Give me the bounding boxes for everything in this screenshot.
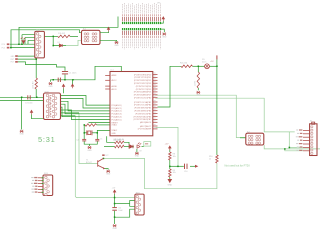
wire vcc stub xtal <box>72 80 74 85</box>
capacitor C3 <box>28 95 30 99</box>
wire led rail 1 <box>107 136 115 142</box>
svg-text:5:31: 5:31 <box>38 135 56 144</box>
wire SV1 pin5 h <box>28 39 35 41</box>
wire r5 gnd stub2 <box>197 88 199 90</box>
wire cap C10 rail <box>170 165 184 167</box>
wire cap rail gnd <box>51 80 53 82</box>
resistor R8 <box>169 152 172 160</box>
wire big loop net <box>103 158 216 188</box>
svg-text:AREF: AREF <box>112 74 118 77</box>
wire ic bus 7 <box>89 122 111 124</box>
wire xtal1 b <box>83 125 86 133</box>
wire top bus B <box>11 30 82 48</box>
svg-text:XTAL2: XTAL2 <box>112 129 118 132</box>
svg-text:RST: RST <box>11 59 14 61</box>
wire transistor base <box>79 113 98 164</box>
wire sv4 p1a <box>130 201 135 204</box>
junction A <box>18 44 20 46</box>
junction cap10 <box>177 166 179 168</box>
svg-text:AGND: AGND <box>112 85 118 88</box>
wire led rail 2b <box>124 146 133 148</box>
svg-text:(PCINT0/CLKO)PB0: (PCINT0/CLKO)PB0 <box>134 98 151 100</box>
junction xtal L <box>84 132 86 134</box>
supply arrow divider <box>169 146 172 150</box>
svg-text:(PCINT19/INT1)PD3: (PCINT19/INT1)PD3 <box>134 83 151 85</box>
junction pwr2 <box>114 203 116 205</box>
wire led to rail <box>209 65 217 67</box>
wire TXD net <box>10 47 35 49</box>
svg-text:C1 100n: C1 100n <box>69 73 77 75</box>
wire xtal c2 v <box>96 133 98 139</box>
svg-text:PC3(ADC3): PC3(ADC3) <box>112 113 122 116</box>
ground K1 <box>115 41 119 44</box>
wire led rail 2 <box>104 146 115 148</box>
svg-text:PC4: PC4 <box>2 44 5 46</box>
junction coll <box>103 158 105 160</box>
capacitor C1 <box>62 72 68 74</box>
svg-text:(PCINT16/RXD)PD0: (PCINT16/RXD)PD0 <box>134 74 151 76</box>
svg-text:10k: 10k <box>173 172 176 174</box>
svg-text:GND: GND <box>162 36 167 38</box>
diode D1 <box>21 37 25 44</box>
wire sv2 p3 <box>61 101 111 111</box>
wire X1 pin7 jog <box>285 149 303 151</box>
svg-text:PD7: PD7 <box>11 62 14 64</box>
junction pwr1 <box>114 197 116 199</box>
svg-text:100k R3: 100k R3 <box>33 81 35 89</box>
wire r5 gnd stub <box>197 66 199 72</box>
supply VCC SV2 <box>30 110 33 114</box>
net arrow cap out <box>195 165 198 168</box>
svg-text:C4: C4 <box>76 140 78 142</box>
svg-text:PC5: PC5 <box>2 47 5 49</box>
wire div mid <box>169 160 171 169</box>
wire sv2 p4 <box>61 104 111 114</box>
wire SV2 top vcc <box>63 89 65 94</box>
wire AVCC over top <box>73 66 121 80</box>
wire rxtx up <box>158 66 182 107</box>
svg-text:ADC6: ADC6 <box>112 88 117 91</box>
diode D2 <box>59 44 62 47</box>
wire SV1 diode branch <box>53 36 66 45</box>
junction pwr3 <box>114 216 116 218</box>
junction rail2 <box>36 97 38 99</box>
junction B <box>10 47 12 49</box>
wire X1 pin6 drop <box>289 132 303 148</box>
wire xtal2 <box>97 130 110 132</box>
wire xtal gnd stub <box>89 144 91 146</box>
resistor R6 <box>115 141 125 144</box>
svg-text:C5: C5 <box>100 139 102 141</box>
wire R3 top <box>35 59 37 78</box>
LED D3 <box>129 145 133 149</box>
svg-text:GND: GND <box>114 45 119 47</box>
svg-text:GND: GND <box>11 56 16 58</box>
svg-text:PC2(ADC2): PC2(ADC2) <box>112 110 122 113</box>
svg-text:GND: GND <box>135 156 140 158</box>
wire sv4 p2 <box>115 209 135 217</box>
svg-text:GND: GND <box>106 174 111 176</box>
svg-text:+5V: +5V <box>210 61 214 63</box>
wire rail y97 <box>0 96 44 98</box>
ground header <box>162 33 166 36</box>
wire sv2 p5 <box>61 107 111 117</box>
svg-text:GND: GND <box>167 184 172 186</box>
wire r4 to led <box>193 65 205 67</box>
wire sv2 p7 <box>61 112 80 114</box>
svg-text:GND: GND <box>48 86 53 88</box>
ground R5 <box>196 91 200 94</box>
junction C <box>21 44 23 46</box>
wire div bottom <box>169 177 171 179</box>
wire K1 vcc <box>100 32 109 33</box>
junction x1b <box>284 148 286 150</box>
supply VCC SV2 right <box>62 84 65 88</box>
relay K1 <box>82 30 101 44</box>
wire K1 gnd <box>100 40 117 42</box>
wire long lower net <box>264 145 320 149</box>
svg-text:AVCC: AVCC <box>112 79 118 82</box>
wire header gnd stub <box>160 29 164 32</box>
svg-text:(PCINT21/T1)PD5: (PCINT21/T1)PD5 <box>136 89 151 91</box>
svg-text:+5V: +5V <box>112 188 116 190</box>
junction rail5 <box>216 66 218 68</box>
resistor R10 <box>216 155 219 163</box>
svg-text:(PCINT17/TXD)PD1: (PCINT17/TXD)PD1 <box>134 77 151 79</box>
connector SV3 <box>43 175 53 196</box>
svg-text:(PCINT4/MISO)PB4: (PCINT4/MISO)PB4 <box>134 111 151 113</box>
svg-text:(PCINT23/AIN1)PD7: (PCINT23/AIN1)PD7 <box>134 94 151 97</box>
LED D4 <box>137 143 141 149</box>
ground entry <box>113 224 117 227</box>
junction xtal series <box>84 124 86 126</box>
ground left drop <box>20 130 24 133</box>
junction led <box>132 146 134 148</box>
svg-text:PC4(ADC4): PC4(ADC4) <box>112 116 122 119</box>
wire SV2 to bottom 5V rail <box>75 116 135 198</box>
wire xtal r <box>92 132 97 134</box>
wire cap C10 out <box>190 165 196 167</box>
junction x1a <box>289 147 291 149</box>
wire R2 to relay <box>70 35 78 37</box>
supply VCC K1 <box>107 27 110 31</box>
op-amp U1 microcontroller IC1 ATMEGA8 <box>110 72 153 136</box>
resistor R3 <box>35 78 38 89</box>
transistor T1 <box>98 158 105 168</box>
svg-text:(PCINT7/XTAL2)PB7: (PCINT7/XTAL2)PB7 <box>133 118 151 121</box>
connector X1 <box>310 124 317 156</box>
svg-text:1k R5: 1k R5 <box>195 80 197 86</box>
wire IC pin to opto <box>155 95 245 137</box>
wire xtal feed <box>18 62 65 71</box>
svg-text:(PCINT2/OC1B)PB2: (PCINT2/OC1B)PB2 <box>134 105 151 107</box>
wire xtal c1 v <box>83 133 85 139</box>
svg-text:GND: GND <box>112 133 117 135</box>
connector SV4 <box>135 194 144 215</box>
junction r5 <box>198 66 200 68</box>
resistor R4 <box>181 65 193 68</box>
supply arrow entry <box>113 190 116 194</box>
svg-text:(ADC6)ADC6: (ADC6)ADC6 <box>140 121 151 124</box>
resistor R9 <box>169 169 172 177</box>
net label 5V coll <box>102 154 104 156</box>
svg-text:5V: 5V <box>139 150 142 152</box>
supply VCC xtal rail <box>71 84 74 88</box>
junction caprail c <box>64 79 66 81</box>
ground leds <box>135 152 139 155</box>
wire cap C1 bottom stub <box>64 75 66 80</box>
wire opto gnd right <box>240 137 246 139</box>
wire led rail 1b <box>124 142 129 144</box>
junction R3 top <box>36 58 38 60</box>
resistor R11 xtal series <box>85 124 97 127</box>
connector SV2 <box>44 93 61 120</box>
wire sv2 p8 <box>61 115 76 117</box>
svg-text:(PCINT6/XTAL1)PB6: (PCINT6/XTAL1)PB6 <box>133 115 151 118</box>
resistor R7 <box>115 145 125 148</box>
wire IC pin to X1 pin6 <box>155 98 294 132</box>
svg-text:XTAL1: XTAL1 <box>112 124 118 127</box>
junction diode top <box>53 36 55 38</box>
LED D5 <box>205 64 210 69</box>
capacitor C6 10uF <box>112 208 117 211</box>
ground xtal rail <box>49 82 53 85</box>
svg-text:PC0(ADC0): PC0(ADC0) <box>112 104 122 107</box>
svg-text:GND: GND <box>87 150 92 152</box>
svg-text:Not used but for FTDI: Not used but for FTDI <box>225 164 250 168</box>
wire cap rail <box>52 79 73 81</box>
wire sv2 p1 <box>61 96 111 106</box>
wire led out <box>142 146 144 148</box>
svg-text:(PCINT5/SCK)PB5: (PCINT5/SCK)PB5 <box>135 113 151 115</box>
wire R3 bottom <box>35 89 37 97</box>
wire emitter gnd <box>105 169 109 170</box>
svg-text:GND: GND <box>112 228 117 230</box>
junction caprail b <box>72 79 74 81</box>
wire SV1 pin5 L <box>27 40 29 44</box>
svg-text:R4 240: R4 240 <box>180 63 188 65</box>
wire SV1 pin4 h <box>25 37 35 39</box>
junction div <box>169 166 171 168</box>
svg-text:(PCINT22/AIN0)PD6: (PCINT22/AIN0)PD6 <box>134 91 151 94</box>
wire top bus A <box>19 17 118 45</box>
capacitor C10 <box>185 164 188 169</box>
svg-text:BC547: BC547 <box>86 162 92 164</box>
svg-text:10k: 10k <box>173 156 176 158</box>
wire xtal l <box>84 132 87 134</box>
crystal Q1 <box>88 131 91 135</box>
wire div top <box>169 147 171 152</box>
connector SV1 <box>35 31 45 58</box>
svg-text:(PCINT3/MOSI)PB3: (PCINT3/MOSI)PB3 <box>134 108 151 110</box>
wire R2 net <box>44 35 57 37</box>
wire sv2 p6 <box>61 110 111 120</box>
ground divider arrow <box>168 179 171 182</box>
wire 5v entry2 <box>114 211 116 224</box>
capacitor C2 <box>58 78 60 82</box>
wire led gnd <box>136 149 138 153</box>
svg-text:1k: 1k <box>209 158 211 160</box>
wire sv4 p1 <box>115 203 130 205</box>
wire SV1 pin3 L <box>21 35 23 45</box>
wire SV1 pin3 h <box>22 34 35 36</box>
junction rail1 <box>21 97 23 99</box>
supply VCC header <box>162 17 165 21</box>
capacitor C4 <box>82 139 86 141</box>
ground crystal <box>88 146 92 149</box>
svg-text:5V?: 5V? <box>105 155 108 157</box>
wire sv2 p2 <box>61 98 111 108</box>
junction xtal R <box>97 132 99 134</box>
wire 5v entry <box>114 194 116 207</box>
resistor R5 <box>197 72 200 88</box>
wire SV1 lower pin a <box>18 55 35 57</box>
svg-text:5mm: 5mm <box>202 62 207 64</box>
junction caprail a <box>53 79 55 81</box>
svg-text:10uF: 10uF <box>118 210 123 212</box>
wire vcc sv2 <box>32 115 44 119</box>
svg-text:(PCINT1/OC1A)PB1: (PCINT1/OC1A)PB1 <box>134 101 151 104</box>
net tick +5 top <box>216 55 218 59</box>
svg-text:C10: C10 <box>184 171 187 173</box>
junction diode <box>53 45 55 47</box>
svg-text:(ADC7)ADC7: (ADC7)ADC7 <box>140 125 151 128</box>
svg-text:(PCINT18/INT0)PD2: (PCINT18/INT0)PD2 <box>134 80 151 82</box>
capacitor C5 <box>95 139 99 141</box>
wire xtal1 a <box>97 124 111 126</box>
svg-text:PC5(ADC5): PC5(ADC5) <box>112 118 122 121</box>
net label led out <box>144 142 151 147</box>
wire SV1 pin4 L <box>24 38 26 45</box>
wire gnd drop left <box>21 97 23 129</box>
svg-text:12k R2: 12k R2 <box>58 33 66 35</box>
svg-text:D2: D2 <box>58 42 60 44</box>
wire diode to relay <box>66 40 82 45</box>
svg-text:(PCINT20/T0)PD4: (PCINT20/T0)PD4 <box>136 86 151 88</box>
wire header vcc stub <box>160 21 163 23</box>
opto K2 <box>246 133 264 145</box>
ground T1 <box>106 170 110 173</box>
svg-text:C3 100n: C3 100n <box>25 103 33 105</box>
resistor R2 <box>58 35 70 38</box>
svg-text:GND: GND <box>19 134 24 136</box>
svg-text:uPD/TXD/AREF: uPD/TXD/AREF <box>138 128 152 131</box>
svg-text:+5V: +5V <box>165 143 169 145</box>
wire SV1 lower pin b <box>18 58 36 59</box>
pin header JP1 array <box>122 4 124 14</box>
wire rail y100 <box>0 99 44 101</box>
wire IC pin to cap junction <box>156 127 178 166</box>
svg-text:GND: GND <box>196 95 201 97</box>
wire +5 rail vertical <box>216 59 218 155</box>
svg-text:PC1(ADC1): PC1(ADC1) <box>112 107 122 110</box>
svg-text:R6 100R: R6 100R <box>114 140 122 142</box>
wire RXD net <box>10 43 35 45</box>
wire sv4 p1b <box>130 204 135 207</box>
wire xtal cap gnd <box>84 141 97 144</box>
